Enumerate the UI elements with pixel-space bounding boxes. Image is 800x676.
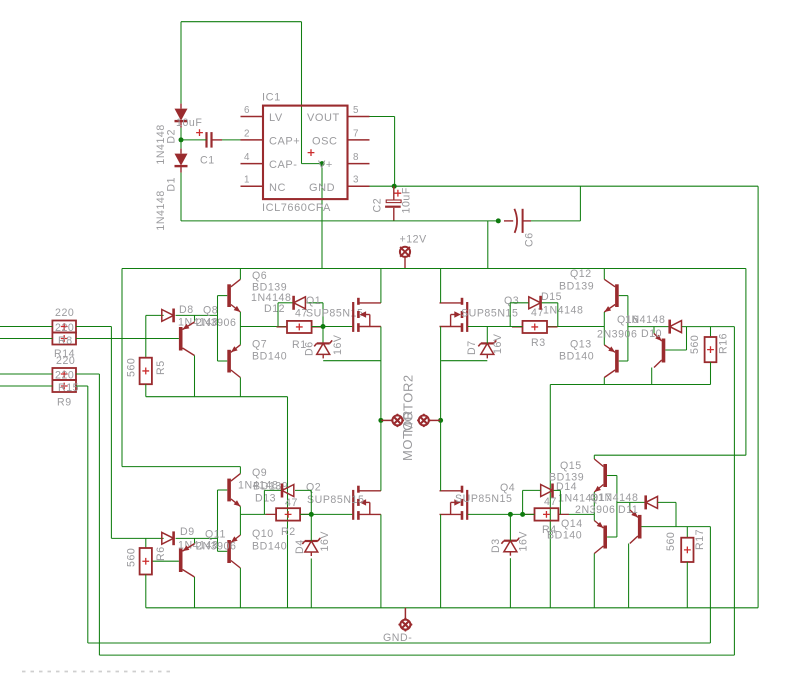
wire [239,467,241,474]
svg-text:Q7: Q7 [252,339,267,351]
wire [642,526,711,528]
wire [121,269,123,467]
pin 4 [241,152,264,164]
wire [146,314,164,316]
wire bases [217,296,219,361]
wire [181,139,207,141]
svg-text:1N4148: 1N4148 [155,190,167,230]
wire [76,326,111,328]
resistor R9b (220) [52,380,76,392]
wire [239,312,241,327]
svg-text:BD140: BD140 [559,351,594,363]
wire [240,513,276,515]
svg-text:Q13: Q13 [570,339,592,351]
wire [87,386,89,643]
svg-text:560: 560 [126,548,138,567]
svg-text:C6: C6 [524,232,536,247]
pin 7 [348,128,370,140]
svg-text:Q15: Q15 [560,460,582,472]
resistor R1 [277,321,323,333]
node R4 left [520,512,525,517]
svg-text:Q10: Q10 [252,528,274,540]
svg-text:5: 5 [353,105,359,116]
wire [531,220,580,222]
transistor Q7 [227,345,240,378]
svg-text:2N3906: 2N3906 [196,541,236,553]
svg-text:D11: D11 [618,504,638,516]
svg-text:2N3906: 2N3906 [597,329,637,341]
svg-text:Q9: Q9 [252,467,267,479]
node motor A [378,418,383,423]
wire crossover 1 [88,642,711,644]
node V+ junction [320,161,325,166]
svg-text:+12V: +12V [400,233,428,245]
svg-text:16V: 16V [518,531,530,552]
svg-text:CAP-: CAP- [269,159,297,171]
resistor R15 (220) [52,368,76,380]
wire [300,513,352,515]
wire [404,257,406,268]
wire [145,384,147,397]
svg-text:ICL7660CPA: ICL7660CPA [262,202,331,214]
resistor R5 [140,358,152,385]
wire [152,560,179,562]
wire [394,117,396,187]
resistor R13 (220) [52,321,76,333]
wire [603,327,605,345]
svg-text:OSC: OSC [312,135,338,147]
wire [757,186,759,608]
svg-text:47: 47 [531,307,544,319]
svg-text:R16: R16 [718,333,730,354]
svg-text:16V: 16V [319,531,331,552]
wire [682,326,735,328]
diode D8 [162,309,174,323]
svg-text:SUP85N15: SUP85N15 [306,308,363,320]
svg-text:D15: D15 [541,291,562,303]
wire [550,384,710,386]
svg-text:D10: D10 [641,328,662,340]
wire [302,163,323,165]
wire [593,554,595,608]
svg-text:220: 220 [56,355,75,367]
wire input B [0,338,52,340]
svg-text:560: 560 [665,532,677,551]
wire [218,489,228,491]
diode D12 [294,296,306,310]
diode D2 [175,104,188,128]
svg-text:R8: R8 [58,335,73,347]
pin 2 [241,128,264,140]
svg-text:D14: D14 [556,481,577,493]
node motor B [438,418,443,423]
wire [310,559,312,608]
wire D11 cathode line [617,501,645,503]
wire [510,302,528,304]
wire [558,513,594,515]
svg-text:R5: R5 [155,360,167,375]
wire [322,303,324,344]
pin 1 [241,175,264,187]
node Q2 gate [309,512,314,517]
svg-text:D3: D3 [490,538,502,553]
svg-text:10uF: 10uF [401,187,413,213]
svg-text:1N4148: 1N4148 [543,305,583,317]
wire [323,360,381,362]
wire [278,302,293,304]
diode D14 [541,484,553,498]
svg-text:R15: R15 [58,382,79,394]
transistor Q6 [227,279,240,312]
svg-text:C2: C2 [372,198,384,213]
wire [665,349,686,351]
wire [658,501,676,503]
zener D6 [314,340,332,358]
wire [176,537,218,539]
svg-text:VOUT: VOUT [307,112,340,124]
wire input riser right top [733,327,735,655]
node C6 left [496,218,501,223]
transistor Q8 [179,322,195,356]
zener D4 [302,538,320,556]
wire block rail [594,454,746,456]
svg-text:2N3906: 2N3906 [196,317,236,329]
svg-text:GND-: GND- [383,632,412,644]
wire [486,327,488,344]
resistor R16 [705,337,717,362]
svg-text:4: 4 [244,152,250,163]
transistor Q14 [594,521,607,554]
wire [239,514,241,535]
wire [593,492,595,514]
wire [218,295,228,297]
wire [307,302,323,304]
wire [76,373,99,375]
IC IC1 body [263,106,348,200]
wire [370,116,395,118]
transistor Q9 [227,474,240,507]
wire bases [616,476,618,538]
svg-text:Q2: Q2 [306,482,321,494]
wire [686,562,688,608]
svg-text:Q11: Q11 [205,529,226,541]
wire [509,514,511,540]
wire [146,396,288,398]
motor terminal 2 [417,414,441,428]
svg-text:8: 8 [353,152,359,163]
svg-text:6: 6 [244,105,250,116]
wire bases [217,490,219,551]
svg-text:2: 2 [244,128,250,139]
wire [295,489,311,491]
svg-text:NC: NC [269,182,286,194]
svg-text:560: 560 [689,335,701,354]
node Q4 gate [508,512,513,517]
wire [239,568,241,608]
svg-text:1N4148: 1N4148 [598,492,638,504]
wire [468,326,523,328]
transistor Q10 [227,535,240,568]
svg-text:560: 560 [126,358,138,377]
wire [310,490,312,514]
svg-text:220: 220 [55,322,74,334]
wire [194,356,196,397]
IC1 pin names [269,112,340,194]
svg-text:D13: D13 [255,493,276,505]
wire [440,269,442,303]
wire [557,303,559,327]
diode D15 [529,296,541,310]
wire [710,362,712,384]
wire [593,455,595,459]
wire D10 cathode line [628,326,669,328]
wire [239,269,241,280]
svg-text:D7: D7 [466,340,478,355]
footer artifact line [22,671,172,673]
svg-text:BD139: BD139 [559,281,594,293]
wire [180,22,182,104]
svg-text:Q14: Q14 [561,518,583,530]
wire [264,489,281,491]
wire [441,360,487,362]
wire [277,303,279,327]
wire [312,326,353,328]
wire [111,537,163,539]
wire [180,128,182,140]
diode D1 [175,149,188,173]
wire to GND via R4 center [549,385,551,608]
svg-text:Q1: Q1 [306,295,321,307]
wire [686,327,688,350]
wire [487,221,489,269]
svg-text:47: 47 [285,497,298,509]
svg-text:1N4148: 1N4148 [625,314,665,326]
diode D13 [282,484,294,498]
svg-text:16V: 16V [332,334,344,355]
svg-text:R9: R9 [57,397,72,409]
svg-text:LV: LV [269,112,283,124]
wire [239,506,241,514]
wire [218,550,228,552]
svg-text:R17: R17 [694,529,706,550]
wire [607,475,617,477]
svg-text:Q12: Q12 [570,268,592,280]
diode D11 [646,495,658,509]
wire input C [0,373,52,375]
svg-text:D6: D6 [304,341,316,356]
wire crossover 2 [99,654,734,656]
wire [380,269,382,303]
wire [218,360,228,362]
wire to GND via R2 center [287,397,289,608]
wire [619,360,628,362]
wire [603,378,605,385]
diode D9 [162,531,174,545]
svg-text:D2: D2 [166,129,178,144]
svg-text:CAP+: CAP+ [269,135,300,147]
svg-text:D9: D9 [180,526,195,538]
wire [603,312,605,327]
resistor R6 [140,548,152,575]
wire [745,269,747,456]
svg-text:R2: R2 [281,526,296,538]
wire [440,420,442,490]
wire [380,514,382,607]
wire [554,489,561,491]
wire [522,490,524,514]
wire [301,22,303,164]
wire [194,577,196,608]
wire [370,185,759,187]
zener D3 [501,538,519,556]
wire [110,327,112,539]
wire [98,374,100,655]
zener D7 [478,340,496,358]
wire [145,315,147,357]
resistor R8 (220) [52,333,76,345]
ground GND- symbol [398,608,412,632]
svg-text:1: 1 [244,175,250,186]
svg-text:Q6: Q6 [252,270,267,282]
wire [509,558,511,608]
wire [686,527,688,538]
pin 6 [241,105,264,117]
wire [194,538,196,543]
wire [523,489,541,491]
wire [653,327,655,334]
resistor R3 [512,321,558,333]
wire input D [0,385,52,387]
svg-text:2N3906: 2N3906 [575,504,615,516]
wire input riser right bottom [709,527,711,643]
transistor Q15 [594,459,607,492]
transistor Q11 [179,544,195,577]
wire [603,269,605,280]
supply +12V symbol [400,247,410,257]
svg-text:MOTOR2: MOTOR2 [401,374,416,433]
transistor Q12 [604,279,618,312]
wire [651,368,653,385]
wire [380,420,382,490]
wire [619,295,628,297]
node D1/D2/C1 [179,137,184,142]
mosfet Q4 [440,486,468,520]
wire [710,327,712,337]
wire [440,514,442,607]
wire [181,220,498,222]
wire [593,514,595,520]
wire [579,186,581,221]
mosfet Q2 [353,486,381,520]
wire [194,315,196,322]
svg-text:47: 47 [544,496,557,508]
capacitor C6 [504,209,531,233]
wire [628,544,630,608]
wire [547,326,604,328]
wire +12V rail [122,268,746,270]
wire [310,514,312,541]
svg-text:R3: R3 [531,337,546,349]
svg-text:SUP85N15: SUP85N15 [455,493,512,505]
wire [176,314,218,316]
svg-text:BD140: BD140 [252,541,287,553]
node Q1 gate [321,324,326,329]
svg-text:GND: GND [309,182,335,194]
wire [239,327,241,345]
wire [509,303,511,327]
capacitor C1 [196,129,222,147]
wire [145,575,147,608]
mosfet Q3 [440,298,468,332]
svg-text:D12: D12 [264,303,285,315]
svg-text:1N4148: 1N4148 [155,124,167,164]
wire [76,338,179,340]
node C2/pin3 [392,184,397,189]
wire [380,327,382,421]
svg-text:R4: R4 [542,524,557,536]
diode D10 [670,320,682,334]
wire [542,302,558,304]
svg-text:R6: R6 [155,546,167,561]
wire [76,385,88,387]
transistor Q13 [604,345,618,378]
pin 8 [348,152,370,164]
pin 5 [348,105,370,117]
svg-text:C1: C1 [200,155,215,167]
wire [263,490,265,514]
wire bases right [627,296,629,361]
wire [629,502,631,510]
pin 3 [348,175,370,187]
capacitor C2 [385,186,401,221]
motor terminal 1 [381,414,404,428]
svg-text:IC1: IC1 [262,92,281,104]
resistor R2 [266,508,311,520]
wire block rail [122,466,240,468]
svg-text:Q3: Q3 [504,295,519,307]
resistor R17 [681,538,693,562]
wire [239,378,241,397]
wire [675,502,677,526]
svg-text:SUP85N15: SUP85N15 [307,494,364,506]
transistor Q16 [654,334,665,368]
svg-text:7: 7 [353,128,359,139]
svg-text:D1: D1 [166,177,178,192]
wire [181,21,302,23]
svg-text:D4: D4 [294,539,306,554]
wire [559,490,561,514]
transistor Q17 [630,510,642,544]
svg-text:16V: 16V [492,333,504,354]
wire [180,140,182,149]
svg-text:BD140: BD140 [252,351,287,363]
resistor R4 [524,508,569,520]
wire [240,326,287,328]
svg-text:220: 220 [55,307,74,319]
svg-text:10uF: 10uF [176,117,202,129]
wire [222,139,241,141]
svg-text:3: 3 [353,175,359,186]
svg-text:V+: V+ [318,159,333,171]
wire [440,327,442,421]
wire [468,513,535,515]
wire [180,173,182,221]
wire GND rail [146,607,758,609]
mosfet Q1 [353,298,381,332]
wire [145,538,147,548]
svg-text:D8: D8 [179,304,194,316]
wire input A [0,326,52,328]
